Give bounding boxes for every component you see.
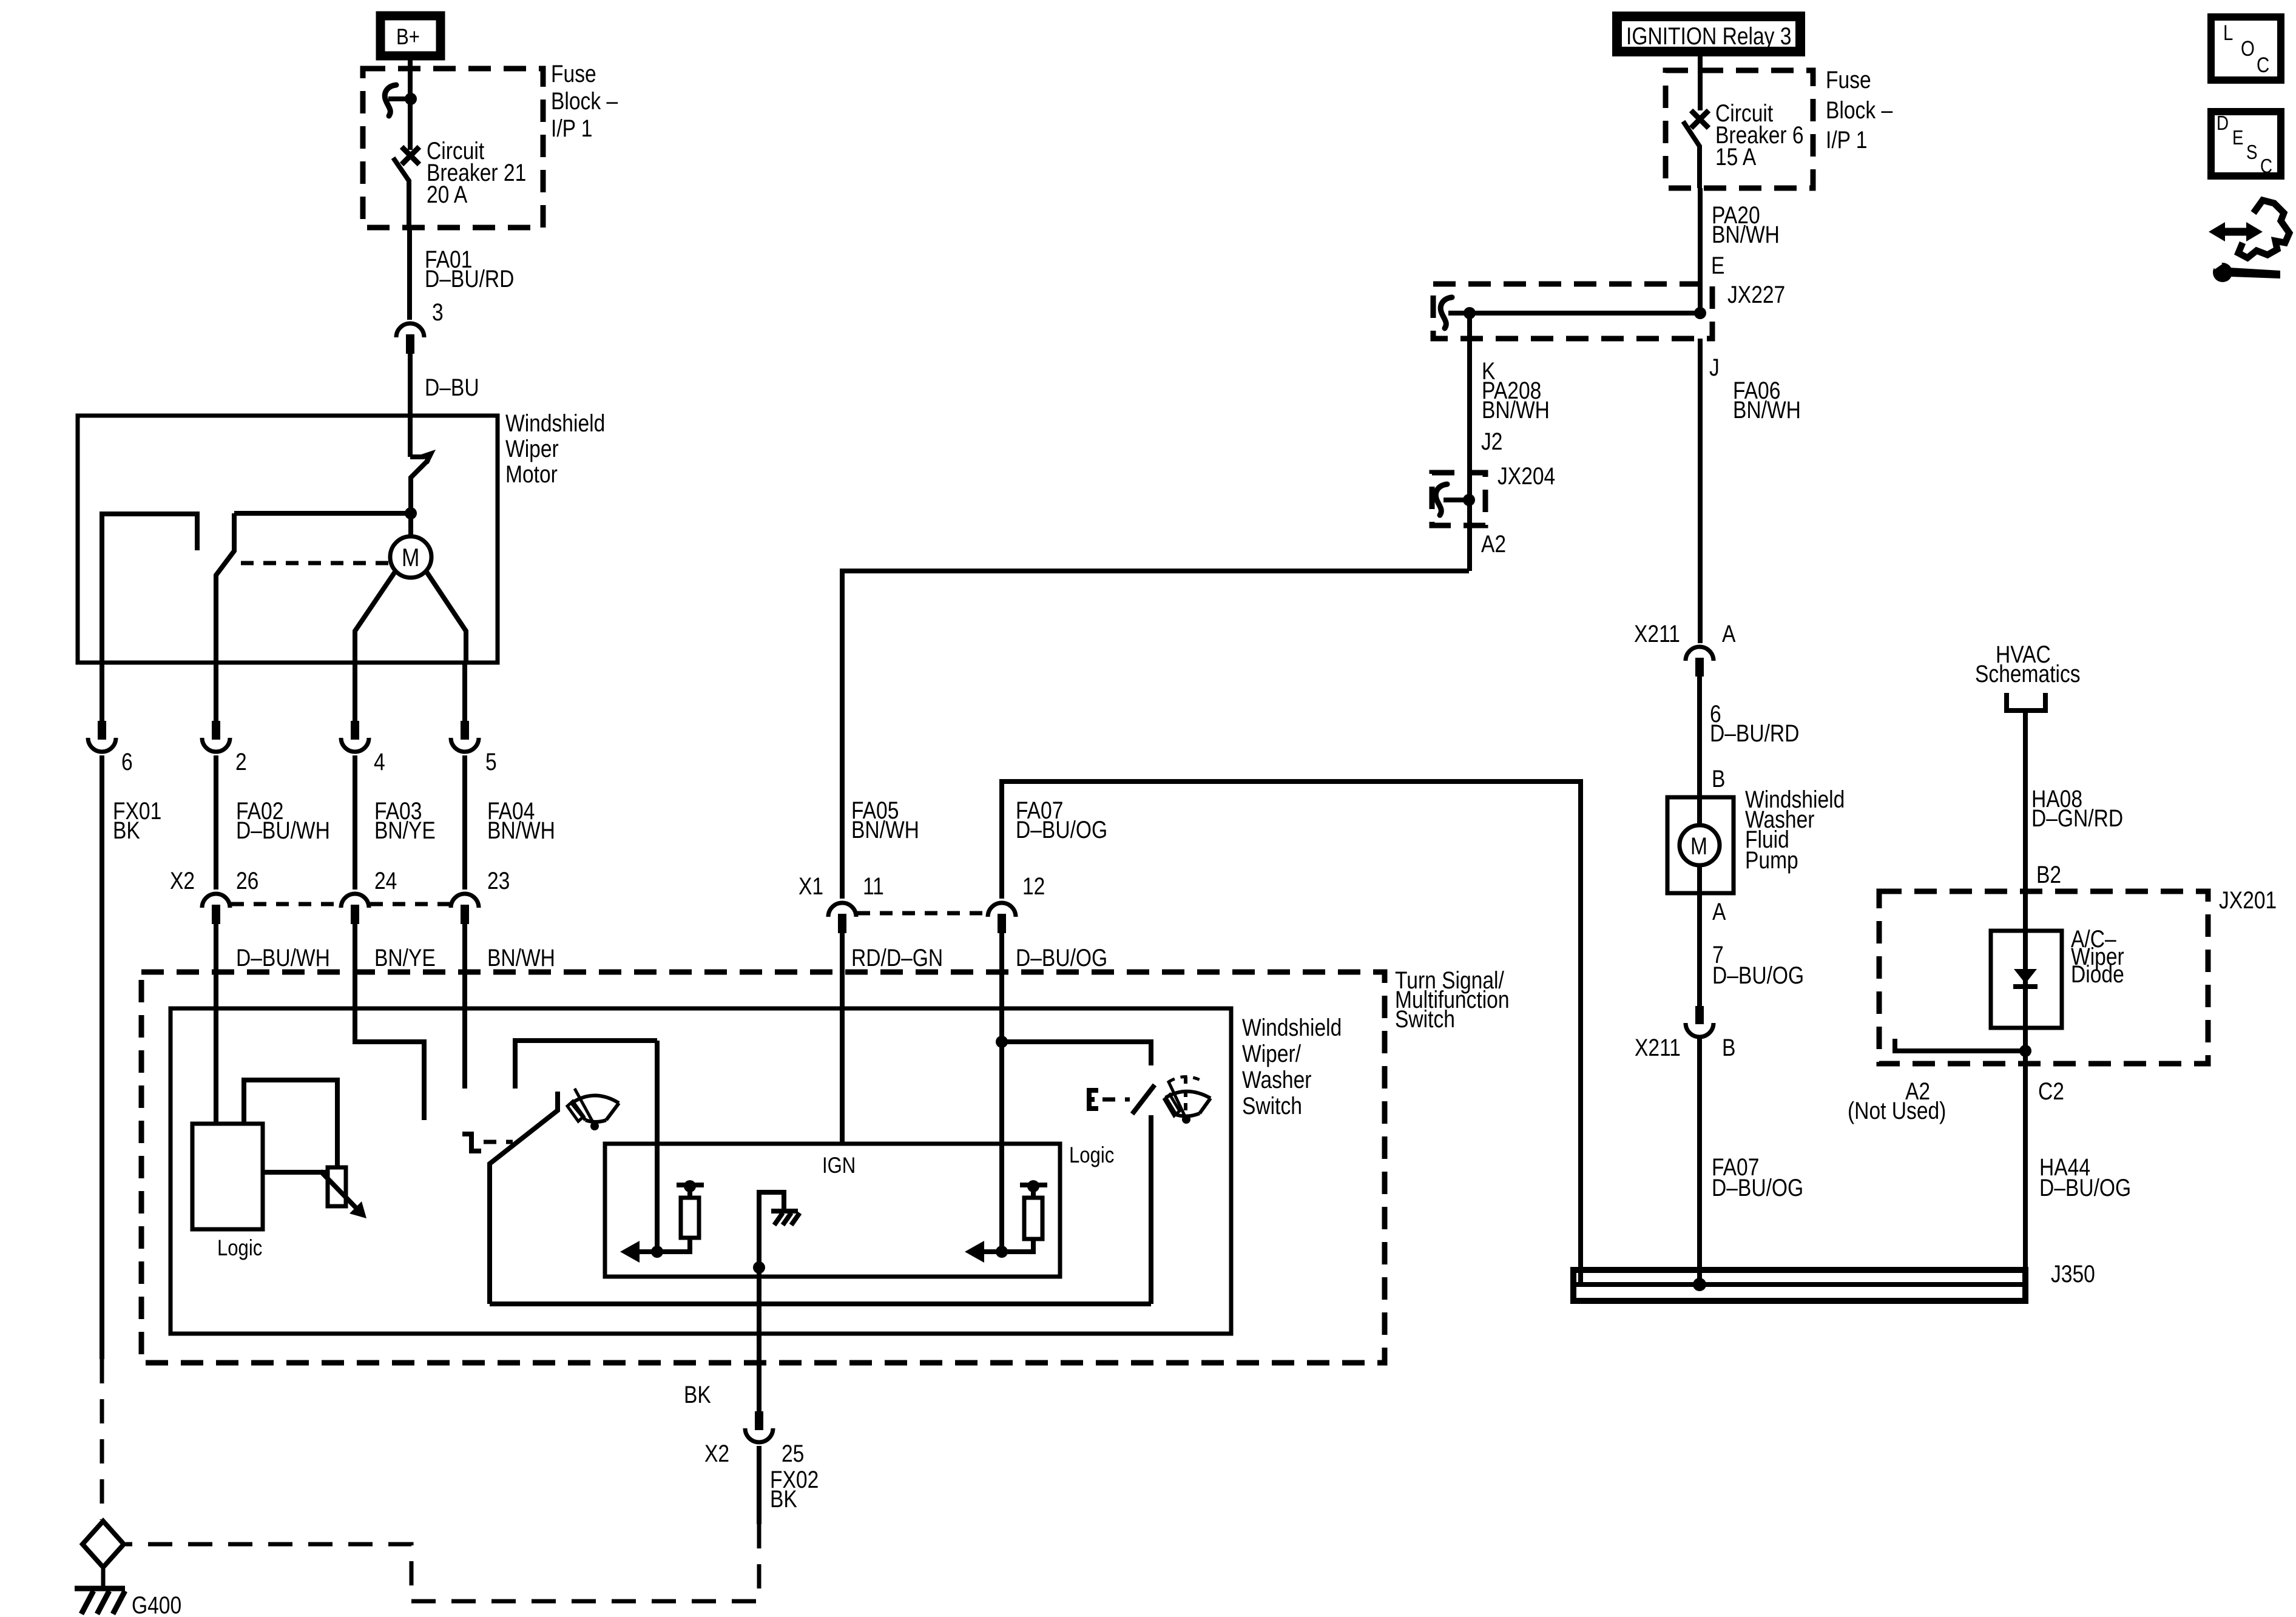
svg-text:A2: A2 <box>1481 530 1506 557</box>
svg-text:Pump: Pump <box>1745 846 1798 873</box>
node BK junction dot on IGN box edge <box>753 1261 765 1274</box>
node JX227 main junction dot <box>1694 307 1706 319</box>
svg-text:Motor: Motor <box>505 461 558 487</box>
label FA06 BN/WH <box>1733 377 1801 423</box>
svg-text:24: 24 <box>374 867 397 894</box>
park switch moving contact arrowhead <box>421 450 436 464</box>
motor M circle <box>390 536 431 578</box>
mechanical dashes E to wiper blade <box>484 1140 513 1144</box>
svg-text:BK: BK <box>684 1381 711 1408</box>
wire PA20 <box>1698 188 1703 313</box>
label PA20 BN/WH <box>1712 201 1780 248</box>
IGNITION Relay 3 power feed box <box>1617 16 1800 52</box>
label Windshield Wiper/Washer Switch <box>1242 1014 1342 1119</box>
wiper switch blade with tip stub <box>490 1092 558 1304</box>
svg-text:D–BU/OG: D–BU/OG <box>1712 962 1804 988</box>
svg-text:S: S <box>2246 141 2257 164</box>
label FA05 BN/WH <box>851 797 919 843</box>
connector X2 pin 23 (arc over pin) <box>451 894 479 924</box>
svg-text:BK: BK <box>113 817 140 843</box>
windshield washer fluid pump box <box>1667 797 1734 893</box>
label FX02 BK <box>770 1466 819 1512</box>
mechanical dashed link X2 connectors <box>231 902 340 906</box>
svg-text:D–BU/WH: D–BU/WH <box>236 944 330 971</box>
wire FX01 below motor pin 6 <box>100 663 104 721</box>
label FA04 BN/WH <box>487 797 555 843</box>
svg-text:I/P 1: I/P 1 <box>1826 126 1867 153</box>
label PA208 BN/WH <box>1482 377 1550 423</box>
svg-text:BN/WH: BN/WH <box>851 816 919 843</box>
label Turn Signal/Multifunction Switch <box>1395 967 1510 1032</box>
svg-text:Block –: Block – <box>551 87 618 114</box>
svg-text:X2: X2 <box>704 1440 729 1467</box>
motor leg left to BK <box>355 571 396 663</box>
svg-text:Switch: Switch <box>1242 1092 1302 1119</box>
label Windshield Washer Fluid Pump <box>1745 786 1845 873</box>
svg-text:RD/D–GN: RD/D–GN <box>851 944 943 971</box>
service icon (hand with wrench) <box>2209 200 2289 282</box>
rheostat (variable resistor) <box>320 1167 366 1218</box>
circuit breaker CB21 hook element <box>385 85 396 116</box>
LOC reference box <box>2211 17 2281 80</box>
svg-text:Logic: Logic <box>217 1236 262 1261</box>
wire logic box frame link <box>244 1080 337 1167</box>
wire wiper sense into IGN box <box>655 1041 660 1252</box>
logic box (wiper logic) <box>192 1124 263 1229</box>
label HA08 D-GN/RD <box>2031 785 2123 831</box>
circuit breaker CB6 contact X mark <box>1691 110 1709 128</box>
svg-text:6: 6 <box>121 748 133 775</box>
svg-text:BN/WH: BN/WH <box>1482 396 1550 423</box>
washer switch blade <box>1132 1085 1155 1114</box>
svg-text:D–BU/OG: D–BU/OG <box>1016 816 1107 843</box>
mechanical dashed link X1 connectors <box>857 911 987 916</box>
svg-text:M: M <box>1690 832 1707 859</box>
B+ power feed box <box>380 16 441 56</box>
svg-text:BN/WH: BN/WH <box>1712 221 1780 248</box>
wire BK down to X2-25 <box>757 1268 761 1411</box>
circuit breaker CB21 contact X mark <box>402 147 419 164</box>
fuse block I/P 1 (right) dashed box <box>1666 70 1813 188</box>
park switch fixed contact L (to pin 6 wire) <box>102 514 197 663</box>
svg-text:D–BU/RD: D–BU/RD <box>425 265 514 292</box>
label Fuse Block - I/P 1 (left) <box>551 60 618 141</box>
connector pin 4 (pin over cup) <box>341 721 369 752</box>
svg-text:C: C <box>2257 53 2269 77</box>
node FA07 switch junction dot <box>996 1036 1008 1048</box>
svg-text:E: E <box>2232 127 2243 149</box>
arrow washer sense (right) <box>965 1241 1002 1263</box>
park switch lower contact and blade to pin 2 <box>216 513 234 663</box>
connector X211 pin B (pin over cup) <box>1686 1006 1714 1037</box>
windshield wiper motor box <box>78 416 498 663</box>
label FA07 D-BU/OG (upper) <box>1016 797 1107 843</box>
washer switch contact stub <box>1002 1042 1151 1065</box>
wire FA04 to X2-23 <box>462 755 467 890</box>
svg-text:L: L <box>2223 21 2233 45</box>
fuse block I/P 1 (left) dashed box <box>363 69 543 228</box>
connector X2 pin 26 (arc over pin) <box>202 894 230 924</box>
wire FA03 below motor pin 4 <box>353 663 357 721</box>
svg-text:Fuse: Fuse <box>551 60 596 87</box>
svg-text:BN/WH: BN/WH <box>487 817 555 843</box>
svg-text:JX227: JX227 <box>1727 281 1785 308</box>
svg-text:Windshield: Windshield <box>505 410 605 436</box>
motor leg right to D-BU/WH <box>426 571 466 663</box>
svg-text:4: 4 <box>374 748 385 775</box>
svg-text:(Not Used): (Not Used) <box>1848 1097 1946 1124</box>
svg-text:D–BU/OG: D–BU/OG <box>2039 1174 2131 1201</box>
label FA01 D-BU/RD <box>425 246 514 292</box>
svg-text:M: M <box>402 544 419 572</box>
wire FA03 to X2-24 <box>353 755 357 890</box>
label FA07 D-BU/OG (lower) <box>1712 1153 1803 1201</box>
svg-text:Logic: Logic <box>1069 1143 1114 1168</box>
ground bus J350 <box>1573 1270 2025 1301</box>
wire HA08 <box>2023 711 2028 931</box>
node washer sense junction dot <box>996 1246 1008 1258</box>
resistor R wiper pull-up <box>657 1180 704 1252</box>
label A2 (Not Used) <box>1848 1078 1946 1124</box>
washer icon (washer switch, with spray dashes) <box>1164 1076 1210 1124</box>
wire junction to contact <box>408 99 413 150</box>
wire 6 D-BU/RD <box>1697 677 1702 797</box>
wire HA44 to J350 <box>2023 1051 2028 1273</box>
windshield wiper/washer switch inner box <box>171 1008 1231 1334</box>
svg-text:Switch: Switch <box>1395 1005 1455 1032</box>
junction block JX227 dashed box <box>1433 284 1712 339</box>
svg-text:2: 2 <box>235 748 247 775</box>
washer switch pivot wire <box>1149 1115 1153 1304</box>
wire park switch common horizontal <box>234 511 411 516</box>
pump motor M circle <box>1680 797 1720 893</box>
turn signal/multifunction switch dashed box <box>141 972 1385 1363</box>
svg-text:O: O <box>2241 37 2255 61</box>
wire PA208 K branch <box>1467 313 1472 473</box>
svg-text:BN/WH: BN/WH <box>487 944 555 971</box>
node junction dot CB21 <box>405 93 417 105</box>
svg-text:Fuse: Fuse <box>1826 66 1871 93</box>
svg-text:D–BU: D–BU <box>425 374 479 400</box>
svg-text:D–BU/OG: D–BU/OG <box>1016 944 1107 971</box>
label Circuit Breaker 21 20 A <box>427 137 526 208</box>
wiper icon (wiper switch) <box>567 1089 619 1130</box>
wire FA07 top route to J350 <box>1002 781 1581 1284</box>
label Windshield Wiper Motor <box>505 410 605 487</box>
svg-text:J2: J2 <box>1481 428 1502 454</box>
svg-text:J350: J350 <box>2051 1260 2095 1287</box>
wire FA02 to X2-26 <box>214 755 218 890</box>
svg-text:D–BU/RD: D–BU/RD <box>1710 720 1799 746</box>
label A/C-Wiper Diode <box>2071 925 2124 987</box>
wiper switch pivot to washer pivot common wire <box>490 1301 1151 1306</box>
diode D1 symbol <box>2013 931 2038 1051</box>
svg-text:A: A <box>1712 898 1726 925</box>
connector X1 pin 12 (arc over pin) <box>988 903 1016 933</box>
park switch jog wire <box>410 454 424 459</box>
svg-text:3: 3 <box>432 299 444 325</box>
svg-text:X211: X211 <box>1635 1034 1681 1061</box>
svg-text:20 A: 20 A <box>427 181 468 208</box>
wire A2 not used branch <box>1895 1039 2025 1051</box>
wire RD/D-GN below X1-11 <box>840 933 845 1144</box>
wire 7 D-BU/OG <box>1697 893 1702 1006</box>
svg-text:BN/YE: BN/YE <box>374 944 436 971</box>
wire FA02 below motor pin 2 <box>214 663 218 721</box>
JX204 hook element <box>1436 484 1447 515</box>
mechanical dashes E to washer blade <box>1102 1098 1130 1102</box>
wire FA04 below motor pin 5 <box>462 663 467 721</box>
svg-text:A: A <box>1722 620 1736 647</box>
svg-text:15 A: 15 A <box>1715 143 1757 170</box>
node JX204 junction dot <box>1463 494 1475 506</box>
svg-text:B: B <box>1712 765 1725 792</box>
circuit breaker CB21 blade <box>393 158 409 227</box>
wiper switch momentary E bracket <box>462 1134 481 1151</box>
svg-text:BK: BK <box>770 1485 797 1512</box>
resistor R washer pull-up <box>1002 1180 1047 1252</box>
wire FA06 main vertical <box>1698 339 1703 643</box>
mechanical dashed link park switch to motor <box>241 561 390 565</box>
svg-text:E: E <box>1711 252 1724 279</box>
svg-text:BN/WH: BN/WH <box>1733 396 1801 423</box>
svg-text:B2: B2 <box>2036 861 2061 888</box>
svg-text:Washer: Washer <box>1242 1066 1311 1093</box>
node wiper sense junction dot <box>651 1246 663 1258</box>
wire BN/YE into switch <box>355 924 424 1120</box>
svg-text:12: 12 <box>1022 873 1045 899</box>
svg-text:C2: C2 <box>2038 1078 2064 1104</box>
connector pin 6 (pin over cup) <box>88 721 116 752</box>
svg-text:JX204: JX204 <box>1497 462 1555 489</box>
arrow wiper sense (left) <box>620 1241 657 1263</box>
svg-text:B+: B+ <box>396 25 420 50</box>
wire PA208 through JX204 <box>1467 473 1472 571</box>
svg-text:Schematics: Schematics <box>1975 660 2081 687</box>
node motor junction dot <box>405 507 417 519</box>
wire D-BU/OG below X1-12 <box>999 933 1004 1042</box>
wire B+ to fuse block <box>408 60 413 97</box>
svg-text:IGNITION Relay 3: IGNITION Relay 3 <box>1626 22 1791 49</box>
svg-text:D–BU/OG: D–BU/OG <box>1712 1174 1803 1201</box>
label HVAC Schematics <box>1975 641 2081 687</box>
wire washer sense into IGN box <box>999 1042 1004 1252</box>
svg-text:D: D <box>2217 112 2229 135</box>
connector X2 pin 25 (pin over cup) <box>745 1411 773 1442</box>
svg-text:Block –: Block – <box>1826 96 1893 123</box>
svg-text:D–GN/RD: D–GN/RD <box>2031 805 2123 831</box>
svg-text:Diode: Diode <box>2071 960 2124 987</box>
circuit breaker CB6 blade <box>1683 121 1700 188</box>
svg-text:Windshield: Windshield <box>1242 1014 1342 1041</box>
A/C wiper diode box <box>1991 931 2062 1028</box>
IGN box <box>605 1144 1060 1277</box>
svg-text:Wiper: Wiper <box>505 435 559 462</box>
svg-text:C: C <box>2260 155 2272 178</box>
node FA07 junction dot on J350 <box>1693 1278 1706 1291</box>
wire relay to fuse block <box>1698 56 1703 110</box>
svg-text:23: 23 <box>487 867 510 894</box>
ground symbol inside IGN box <box>759 1192 800 1266</box>
wire FX02 BK below connector <box>757 1446 761 1524</box>
label Circuit Breaker 6 15 A <box>1715 100 1804 170</box>
washer switch momentary E symbol <box>1087 1088 1098 1111</box>
connector pin 2 (pin over cup) <box>202 721 230 752</box>
svg-text:11: 11 <box>863 873 884 899</box>
wire FX01 BK long vertical <box>100 755 104 1359</box>
svg-text:Wiper/: Wiper/ <box>1242 1040 1302 1067</box>
wire FA07 to J350 <box>1697 1039 1702 1284</box>
wire FA01 below fuse block <box>407 227 412 320</box>
connector X2 pin 24 (arc over pin) <box>341 894 369 924</box>
svg-text:J: J <box>1709 354 1720 380</box>
off-page bracket HVAC <box>2007 693 2045 711</box>
svg-text:B: B <box>1722 1034 1735 1061</box>
label Fuse Block - I/P 1 (right) <box>1826 66 1893 153</box>
junction block JX201 dashed box <box>1879 891 2208 1064</box>
wire JX204 hook link <box>1443 498 1470 502</box>
ground distribution dashed route FX02 to splice <box>126 1524 759 1601</box>
svg-text:G400: G400 <box>132 1592 181 1617</box>
label FA03 BN/YE <box>374 797 436 843</box>
dashed splice to G400 <box>101 1567 106 1587</box>
DESC reference box <box>2211 112 2281 178</box>
label HA44 D-BU/OG <box>2039 1153 2131 1201</box>
label FX01 BK <box>113 797 161 843</box>
node JX227 K junction dot <box>1464 307 1476 319</box>
svg-text:X211: X211 <box>1634 620 1680 647</box>
svg-text:IGN: IGN <box>822 1153 856 1178</box>
svg-text:5: 5 <box>485 748 497 775</box>
node diode output junction dot <box>2019 1045 2031 1057</box>
wire JX227 internal bus <box>1448 311 1700 316</box>
wire D-BU to motor <box>408 354 413 418</box>
wire logic to rheostat <box>263 1170 328 1175</box>
svg-text:X1: X1 <box>799 873 823 899</box>
ground G400 symbol <box>75 1588 125 1614</box>
svg-text:JX201: JX201 <box>2219 886 2277 913</box>
svg-text:X2: X2 <box>170 867 195 894</box>
svg-text:I/P 1: I/P 1 <box>551 115 592 141</box>
junction block JX204 dashed box <box>1432 473 1485 525</box>
wiper switch common contact <box>515 1041 657 1089</box>
wire FA05 from JX204 junction down to X1-11 <box>842 571 1469 899</box>
label FA02 D-BU/WH <box>236 797 330 843</box>
svg-text:D–BU/WH: D–BU/WH <box>236 817 330 843</box>
ground distribution dashed FX01 to splice <box>100 1359 104 1520</box>
connector pin 3 (arc over pin) <box>396 323 424 354</box>
connector X1 pin 11 (arc over pin) <box>828 903 856 933</box>
wire D-BU/WH into switch <box>214 924 218 1124</box>
park switch blade upper <box>411 460 428 513</box>
splice diamond <box>83 1521 124 1567</box>
svg-text:BN/YE: BN/YE <box>374 817 436 843</box>
svg-text:25: 25 <box>782 1440 804 1467</box>
wire junction to motor <box>408 513 413 538</box>
wire BN/WH into switch <box>462 924 467 1089</box>
JX227 hook element <box>1440 297 1452 328</box>
label 7 D-BU/OG <box>1712 941 1804 988</box>
connector X211 pin A (arc over pin) <box>1686 647 1714 677</box>
label 6 D-BU/RD <box>1710 700 1799 746</box>
connector pin 5 (pin over cup) <box>451 721 479 752</box>
wire motor feed inside box <box>408 416 413 457</box>
wire hook to junction <box>388 96 411 101</box>
svg-text:26: 26 <box>236 867 258 894</box>
